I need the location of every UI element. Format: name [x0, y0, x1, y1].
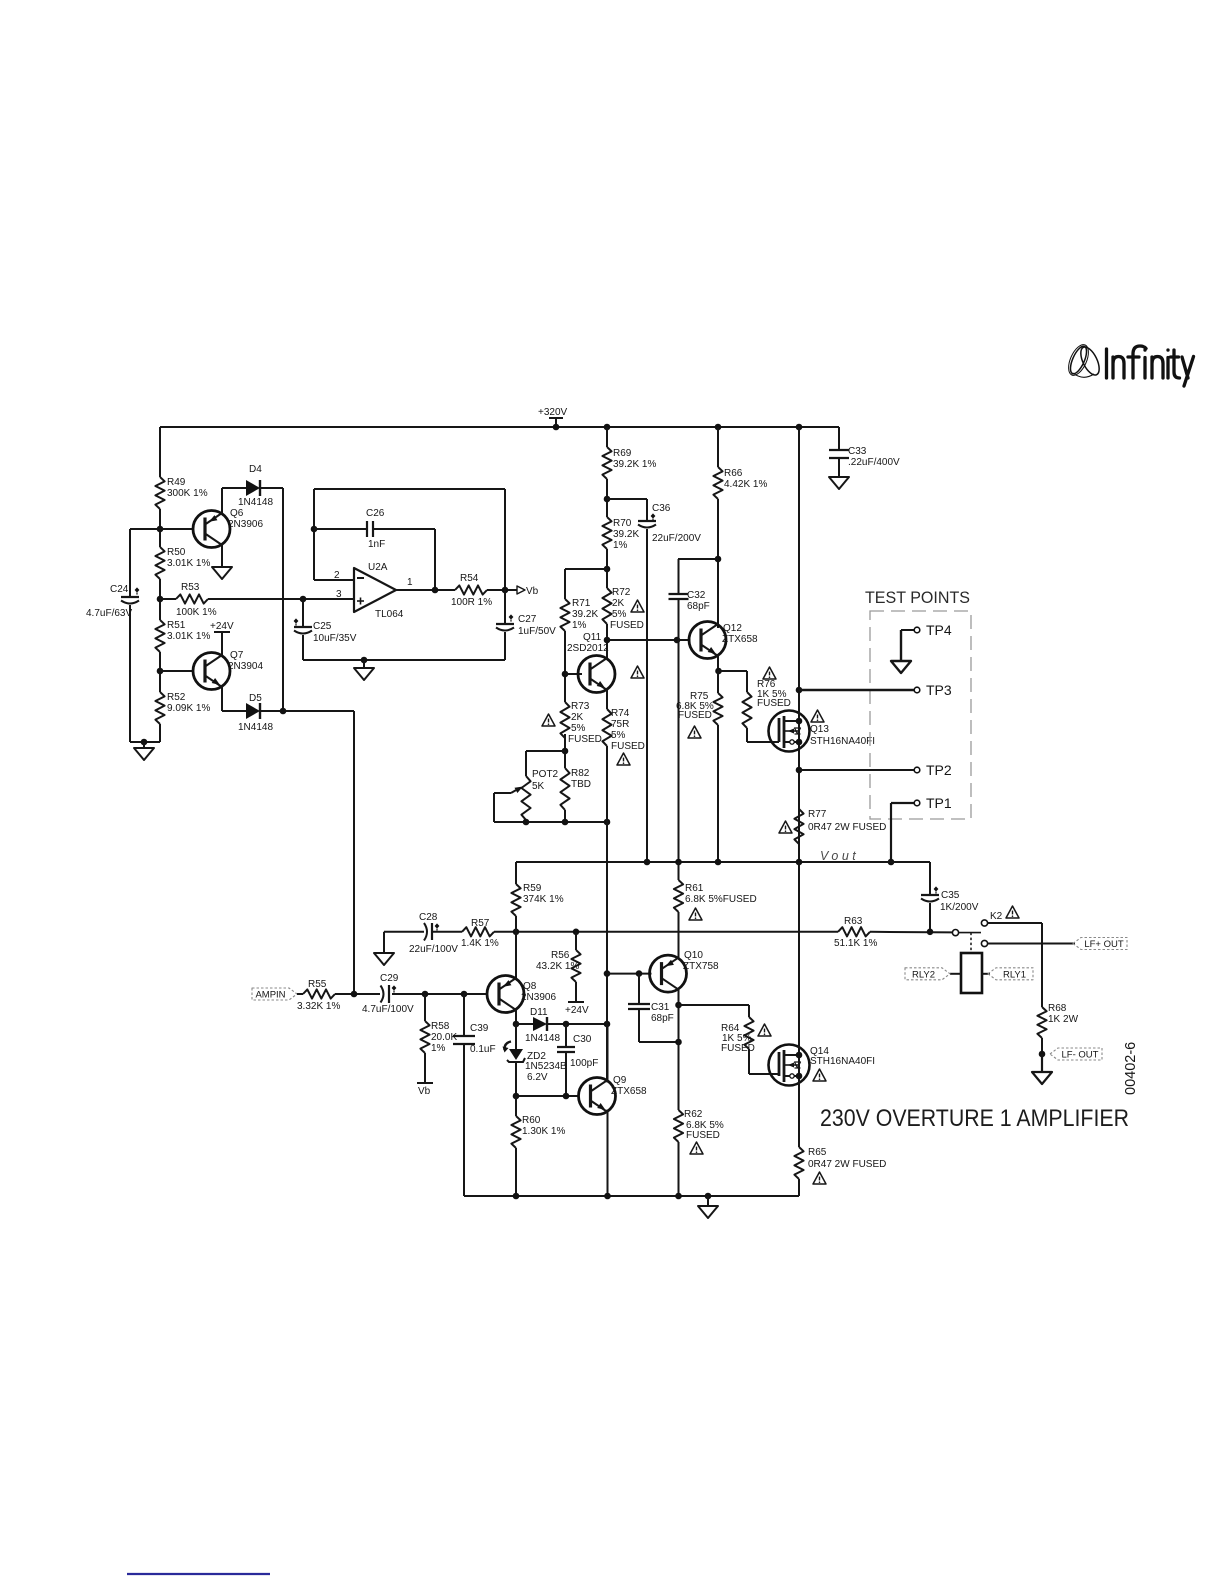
svg-text:100pF: 100pF — [570, 1058, 598, 1069]
svg-text:1N4148: 1N4148 — [238, 497, 273, 508]
svg-text:ZTX658: ZTX658 — [722, 634, 758, 645]
resistor R82 TBD — [560, 768, 591, 810]
junction Q12 base wire left — [604, 637, 611, 644]
svg-text:1N5234B: 1N5234B — [525, 1061, 567, 1072]
junction C35 bottom — [927, 929, 934, 936]
warning R73 — [542, 714, 555, 726]
wire R70 to R72 — [606, 549, 608, 588]
svg-text:C26: C26 — [366, 508, 385, 519]
svg-text:K2: K2 — [990, 911, 1003, 922]
junction cap rail ground — [361, 657, 368, 664]
wire bias output column down to input stage — [353, 711, 355, 994]
node Vb arrow — [517, 586, 539, 597]
resistor R76 — [718, 671, 791, 742]
svg-text:C39: C39 — [470, 1023, 489, 1034]
svg-text:R69: R69 — [613, 448, 632, 459]
svg-text:1nF: 1nF — [368, 539, 385, 550]
svg-text:75R: 75R — [611, 719, 629, 730]
svg-text:Q7: Q7 — [230, 650, 244, 661]
svg-text:.22uF/400V: .22uF/400V — [848, 457, 900, 468]
svg-text:TP1: TP1 — [926, 795, 952, 811]
footer blue line — [127, 1573, 270, 1575]
svg-text:U2A: U2A — [368, 562, 388, 573]
svg-text:68pF: 68pF — [687, 601, 710, 612]
svg-text:R61: R61 — [685, 883, 704, 894]
wire R50 to R51 — [159, 579, 161, 620]
wire R55 to Q8 base — [335, 993, 380, 995]
resistor R54 — [451, 573, 492, 608]
resistor R55 — [297, 979, 340, 1012]
svg-text:R66: R66 — [724, 468, 743, 479]
svg-text:D4: D4 — [249, 464, 262, 475]
capacitor C36 22uF/200V — [607, 499, 701, 862]
svg-text:2SD2012: 2SD2012 — [567, 643, 609, 654]
junction bottom rail taps — [513, 1193, 520, 1200]
resistor R71 — [560, 598, 598, 631]
wire R59 to Q8 collector — [515, 916, 517, 980]
junction Q10 base node — [604, 970, 611, 977]
svg-text:RLY2: RLY2 — [912, 969, 935, 980]
junction pot bottom — [523, 819, 530, 826]
svg-text:R50: R50 — [167, 547, 186, 558]
resistor R74 — [602, 708, 645, 752]
svg-text:C33: C33 — [848, 446, 867, 457]
svg-text:3.01K 1%: 3.01K 1% — [167, 558, 210, 569]
svg-text:3.01K 1%: 3.01K 1% — [167, 631, 210, 642]
junction C31 bottom — [675, 1039, 682, 1046]
wire bottom ground rail — [464, 1195, 799, 1197]
svg-text:R63: R63 — [844, 916, 863, 927]
Infinity logo mark — [1065, 342, 1103, 378]
svg-text:AMPIN: AMPIN — [255, 990, 285, 1001]
svg-text:Q8: Q8 — [523, 981, 537, 992]
wire Q6 collector to ground — [221, 544, 223, 567]
op-amp U2A TL064 — [354, 562, 404, 620]
test points dashed box — [870, 611, 971, 819]
wire R68 to LF- node — [1041, 1038, 1043, 1054]
svg-text:4.7uF/100V: 4.7uF/100V — [362, 1004, 414, 1015]
wire Q7 emitter to D5 — [221, 686, 223, 711]
svg-text:R55: R55 — [308, 979, 327, 990]
ground under Q6 — [212, 567, 232, 579]
svg-text:TBD: TBD — [571, 779, 591, 790]
svg-text:1.30K 1%: 1.30K 1% — [522, 1126, 565, 1137]
junction R53 tap — [157, 596, 164, 603]
svg-text:C27: C27 — [518, 614, 537, 625]
resistor R51 — [155, 620, 210, 652]
svg-text:20.0K: 20.0K — [431, 1032, 457, 1043]
wire K2 NC contact to R68 — [988, 922, 1043, 924]
wire R72 to Q11 — [606, 624, 608, 659]
svg-text:Q13: Q13 — [810, 724, 829, 735]
warning R76 — [763, 667, 776, 679]
capacitor C31 68pF — [628, 974, 679, 1042]
transistor Q9 ZTX658 — [516, 1075, 647, 1115]
svg-text:2N3906: 2N3906 — [521, 992, 556, 1003]
junction Q6 base — [157, 526, 164, 533]
warning R72 — [631, 600, 644, 612]
resistor R52 — [155, 692, 210, 724]
svg-text:R52: R52 — [167, 692, 186, 703]
svg-text:R70: R70 — [613, 518, 632, 529]
junction pot node — [562, 748, 569, 755]
wire R75 bottom to Vout rail — [717, 725, 719, 862]
resistor R73 — [560, 701, 602, 745]
warning R64 — [758, 1024, 771, 1036]
capacitor C30 100pF — [557, 1024, 598, 1096]
relay K2 coil box — [961, 933, 982, 993]
warning R74 — [617, 753, 630, 765]
junction R56 node — [573, 929, 580, 936]
svg-text:1: 1 — [407, 577, 413, 588]
svg-text:R59: R59 — [523, 883, 542, 894]
resistor R68 1K 2W — [1037, 1003, 1078, 1038]
svg-text:R73: R73 — [571, 701, 590, 712]
warning R65 — [813, 1172, 826, 1184]
junction on +320V rail — [553, 424, 560, 431]
resistor R56 — [536, 932, 581, 982]
Infinity logo text — [1107, 346, 1194, 386]
wire R63 to K2 — [870, 931, 952, 934]
wire R60 bottom — [515, 1148, 517, 1196]
diode D4 1N4148 — [238, 464, 273, 508]
svg-text:1%: 1% — [431, 1043, 446, 1054]
svg-text:1N4148: 1N4148 — [525, 1033, 560, 1044]
svg-text:C31: C31 — [651, 1002, 670, 1013]
junction C39 tap — [461, 991, 468, 998]
wire R53 to op-amp pin3 — [208, 598, 354, 600]
transistor Q7 2N3904 — [193, 650, 263, 690]
warning R75 — [688, 726, 701, 738]
svg-text:TEST POINTS: TEST POINTS — [865, 589, 970, 607]
node TP3 — [799, 682, 952, 698]
svg-text:1.4K 1%: 1.4K 1% — [461, 938, 499, 949]
svg-text:Vout: Vout — [820, 849, 859, 863]
resistor R60 — [511, 1096, 565, 1148]
wire pot branch — [526, 750, 565, 752]
wire R73 to pot node — [564, 734, 566, 768]
svg-text:R56: R56 — [551, 950, 570, 961]
resistor R63 — [834, 916, 877, 949]
svg-text:Q12: Q12 — [723, 623, 742, 634]
wire Q11 emitter to R74 — [606, 688, 608, 709]
wire left column top — [159, 427, 161, 477]
wire R69 to R70 — [606, 479, 608, 517]
zener ZD2 1N5234B — [503, 1024, 568, 1096]
svg-text:68pF: 68pF — [651, 1013, 674, 1024]
svg-text:22uF/200V: 22uF/200V — [652, 533, 701, 544]
junction bias column — [351, 991, 358, 998]
svg-text:C32: C32 — [687, 590, 706, 601]
transistor Q12 ZTX658 — [689, 622, 758, 659]
svg-text:C28: C28 — [419, 912, 438, 923]
svg-text:R51: R51 — [167, 620, 186, 631]
svg-text:RLY1: RLY1 — [1003, 969, 1026, 980]
svg-text:100K 1%: 100K 1% — [176, 607, 217, 618]
ground TP4 — [891, 661, 911, 673]
transistor Q6 2N3906 — [193, 508, 263, 548]
capacitor C35 1K/200V — [921, 862, 979, 932]
svg-text:0.1uF: 0.1uF — [470, 1044, 496, 1055]
warning Q14 — [813, 1069, 826, 1081]
svg-text:Q6: Q6 — [230, 508, 244, 519]
svg-text:1N4148: 1N4148 — [238, 722, 273, 733]
svg-text:+24V: +24V — [210, 621, 234, 632]
junction Q9 collector node — [604, 1021, 611, 1028]
diode D5 1N4148 — [238, 693, 273, 733]
resistor R50 — [155, 547, 210, 579]
node TP1 — [891, 795, 952, 862]
svg-text:C36: C36 — [652, 503, 671, 514]
wire R62 bottom — [678, 1142, 680, 1196]
svg-text:C25: C25 — [313, 621, 332, 632]
warning Q13 — [811, 710, 824, 722]
warning R61 — [689, 908, 702, 920]
node +24V under R56 — [565, 982, 589, 1016]
svg-text:374K 1%: 374K 1% — [523, 894, 564, 905]
node TP2 — [799, 762, 952, 778]
svg-text:6.8K 5%FUSED: 6.8K 5%FUSED — [685, 894, 757, 905]
svg-text:TL064: TL064 — [375, 609, 404, 620]
wire +320V to Q13 drain — [798, 427, 800, 711]
svg-text:39.2K: 39.2K — [613, 529, 639, 540]
svg-text:4.7uF/63V: 4.7uF/63V — [86, 608, 132, 619]
warning K2 — [1006, 906, 1019, 918]
svg-text:39.2K 1%: 39.2K 1% — [613, 459, 656, 470]
resistor R75 — [676, 671, 723, 725]
ground under C28 — [374, 953, 394, 965]
transistor Q11 2SD2012 — [565, 632, 615, 693]
transistor Q8 2N3906 — [464, 976, 556, 1013]
capacitor C25 10uF/35V — [294, 599, 357, 660]
svg-text:00402-6: 00402-6 — [1123, 1042, 1139, 1095]
svg-text:5%: 5% — [611, 730, 626, 741]
svg-text:0R47 2W FUSED: 0R47 2W FUSED — [808, 1159, 886, 1170]
svg-text:5K: 5K — [532, 781, 545, 792]
junction R59 node — [513, 929, 520, 936]
junction D4/D5 node — [280, 708, 287, 715]
svg-text:0R47 2W FUSED: 0R47 2W FUSED — [808, 822, 886, 833]
svg-text:Vb: Vb — [418, 1086, 431, 1097]
capacitor C24 4.7uF/63V — [86, 584, 139, 619]
junction C30 top — [563, 1021, 570, 1028]
svg-text:R53: R53 — [181, 582, 200, 593]
flag AMPIN — [252, 988, 297, 1000]
junction C26 left — [311, 526, 318, 533]
mosfet Q13 STH16NA40FI — [769, 711, 876, 863]
junction Q7 base — [157, 668, 164, 675]
junction LF- node — [1039, 1051, 1046, 1058]
wire cap ground rail — [303, 659, 505, 661]
svg-text:C30: C30 — [573, 1034, 592, 1045]
wire feedback row R57 to R63 — [494, 931, 838, 933]
wire Q6 emitter to D4 — [221, 488, 223, 514]
capacitor C33 .22uF/400V — [829, 427, 900, 477]
svg-text:51.1K 1%: 51.1K 1% — [834, 938, 877, 949]
wire feedback loop outer — [313, 489, 315, 580]
svg-text:R74: R74 — [611, 708, 630, 719]
transistor Q10 ZTX758 — [650, 950, 720, 992]
resistor R53 — [160, 582, 217, 618]
wire R74 bottom to pot row — [606, 746, 608, 822]
svg-text:2K: 2K — [612, 598, 625, 609]
resistor R64 branch — [679, 1005, 780, 1074]
svg-text:2N3904: 2N3904 — [228, 661, 263, 672]
wire Q8 emitter to D11 node — [515, 1008, 517, 1024]
svg-text:R82: R82 — [571, 768, 590, 779]
wire +320V top rail — [160, 426, 839, 428]
wire R71 branch — [565, 568, 607, 570]
svg-text:R77: R77 — [808, 809, 827, 820]
wire C24 branch top — [130, 528, 160, 530]
wire C24 bottom — [129, 605, 131, 742]
wire Q9 emitter to bottom rail — [607, 1110, 609, 1197]
junction R58 tap — [422, 991, 429, 998]
junction ground left — [141, 739, 148, 746]
flag RLY1 — [982, 968, 1033, 981]
flag LF- OUT — [1050, 1048, 1102, 1060]
junction D11 anode node — [513, 1021, 520, 1028]
svg-text:STH16NA40FI: STH16NA40FI — [810, 736, 875, 747]
resistor R57 — [461, 918, 499, 949]
svg-text:STH16NA40FI: STH16NA40FI — [810, 1056, 875, 1067]
wire Q10 base — [607, 973, 652, 975]
wire Q12 emitter — [717, 654, 719, 671]
wire R49 to R50 — [159, 509, 161, 547]
svg-text:39.2K: 39.2K — [572, 609, 598, 620]
resistor R61 — [674, 862, 757, 912]
svg-text:1K 2W: 1K 2W — [1048, 1014, 1079, 1025]
svg-text:FUSED: FUSED — [721, 1043, 755, 1054]
svg-text:Q11: Q11 — [583, 632, 602, 643]
ground bottom rail — [698, 1196, 718, 1218]
svg-text:POT2: POT2 — [532, 769, 559, 780]
junction TP2 node — [796, 767, 803, 774]
resistor R66 — [713, 427, 767, 499]
svg-text:R58: R58 — [431, 1021, 450, 1032]
resistor R59 — [511, 862, 563, 916]
svg-text:100R 1%: 100R 1% — [451, 597, 492, 608]
svg-text:TP3: TP3 — [926, 682, 952, 698]
resistor R49 — [155, 477, 207, 509]
svg-text:1%: 1% — [572, 620, 587, 631]
junction C26 right — [432, 587, 439, 594]
svg-text:3: 3 — [336, 589, 342, 600]
flag LF+ OUT — [1073, 938, 1127, 950]
svg-text:R60: R60 — [522, 1115, 541, 1126]
ground under op-amp — [354, 660, 374, 680]
node TP4 — [901, 622, 952, 661]
junction C36 tap — [604, 496, 611, 503]
wire +320V tick — [549, 417, 563, 419]
capacitor C26 1nF — [314, 508, 435, 590]
resistor R58 — [420, 994, 457, 1054]
wire op-amp output — [396, 589, 455, 591]
svg-text:5%: 5% — [612, 609, 627, 620]
wire pot wiper loop — [493, 793, 495, 822]
wire R51 to R52 — [159, 652, 161, 692]
junction R64 node — [675, 1002, 682, 1009]
svg-text:R62: R62 — [684, 1109, 703, 1120]
warning R77 — [779, 821, 792, 833]
svg-text:FUSED: FUSED — [610, 620, 644, 631]
capacitor C39 0.1uF — [453, 994, 496, 1196]
junction TP1 rail — [888, 859, 895, 866]
svg-text:LF- OUT: LF- OUT — [1062, 1050, 1099, 1061]
svg-text:+320V: +320V — [538, 407, 568, 418]
junction C31 top — [636, 970, 643, 977]
svg-text:D5: D5 — [249, 693, 262, 704]
capacitor C27 1uF/50V — [496, 590, 556, 660]
resistor R65 0R47 — [794, 1147, 886, 1179]
junction TP3 node — [796, 687, 803, 694]
svg-text:ZTX758: ZTX758 — [683, 961, 719, 972]
resistor R72 — [602, 587, 644, 631]
svg-text:LF+ OUT: LF+ OUT — [1084, 939, 1124, 950]
switch K2 — [952, 911, 1002, 947]
junction Q9 base nodes — [513, 1093, 520, 1100]
wire Vout rail to Q14 drain — [798, 862, 800, 1045]
svg-text:4.42K 1%: 4.42K 1% — [724, 479, 767, 490]
svg-text:6.2V: 6.2V — [527, 1072, 548, 1083]
wire R65 to bottom rail — [798, 1179, 800, 1196]
wire Q10 collector down — [678, 988, 680, 1110]
svg-text:C29: C29 — [380, 973, 399, 984]
svg-text:FUSED: FUSED — [757, 698, 791, 709]
svg-text:TP4: TP4 — [926, 622, 952, 638]
resistor R69 — [602, 427, 656, 479]
svg-text:FUSED: FUSED — [568, 734, 602, 745]
svg-text:Q9: Q9 — [613, 1075, 627, 1086]
wire D4 cathode down to D5 node — [260, 487, 283, 489]
svg-text:9.09K 1%: 9.09K 1% — [167, 703, 210, 714]
junction Q11 base — [562, 671, 569, 678]
svg-text:1uF/50V: 1uF/50V — [518, 626, 556, 637]
wire Q11 to Q12 base — [607, 639, 691, 641]
svg-text:R49: R49 — [167, 477, 186, 488]
wire Q7 base — [160, 670, 194, 672]
svg-text:3.32K 1%: 3.32K 1% — [297, 1001, 340, 1012]
svg-text:43.2K 1%: 43.2K 1% — [536, 961, 579, 972]
svg-text:ZTX658: ZTX658 — [611, 1086, 647, 1097]
svg-text:C24: C24 — [110, 584, 129, 595]
flag RLY2 — [905, 968, 961, 981]
capacitor C29 4.7uF/100V — [362, 973, 414, 1015]
wire D5 to down-column — [260, 710, 354, 712]
wire AMPIN to R55 — [297, 993, 303, 995]
svg-text:R72: R72 — [612, 587, 631, 598]
svg-text:TP2: TP2 — [926, 762, 952, 778]
svg-text:FUSED: FUSED — [686, 1130, 720, 1141]
svg-text:230V OVERTURE 1 AMPLIFIER: 230V OVERTURE 1 AMPLIFIER — [820, 1105, 1129, 1132]
warning R62 — [690, 1142, 703, 1154]
resistor R77 0R47 — [794, 809, 886, 844]
svg-text:10uF/35V: 10uF/35V — [313, 633, 357, 644]
wire pot row to Q10 base column — [606, 822, 608, 1082]
potentiometer POT2 5K — [494, 769, 559, 820]
svg-text:FUSED: FUSED — [678, 710, 712, 721]
junction Vb node — [502, 587, 509, 594]
junction C32 tap — [715, 556, 722, 563]
wire pot bottom row — [564, 810, 566, 822]
svg-text:1%: 1% — [613, 540, 628, 551]
svg-text:+24V: +24V — [565, 1005, 589, 1016]
wire pin2 feedback — [314, 579, 354, 581]
svg-text:1K/200V: 1K/200V — [940, 902, 979, 913]
resistor R70 — [602, 517, 639, 551]
capacitor C32 68pF — [669, 559, 719, 862]
svg-text:5%: 5% — [571, 723, 586, 734]
